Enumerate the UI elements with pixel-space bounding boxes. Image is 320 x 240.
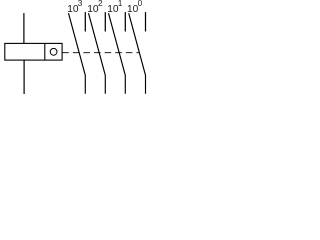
terminal (top) switch 10^1	[124, 12, 126, 31]
divider of drive box	[44, 43, 46, 60]
svg-text:0: 0	[138, 0, 143, 8]
terminal (top) switch 10^0	[145, 12, 147, 31]
svg-text:2: 2	[98, 0, 103, 8]
contact blade switch 10^3	[69, 13, 86, 94]
wire (bottom lead from drive box)	[23, 60, 25, 94]
terminal (top) switch 10^3	[84, 12, 86, 31]
contact blade switch 10^0	[129, 13, 146, 94]
wire (top lead into drive box)	[23, 13, 25, 44]
mechanical link (dashed)	[62, 52, 139, 54]
drive unit box (actuator)	[5, 43, 62, 60]
svg-text:1: 1	[118, 0, 123, 8]
indicator circle inside box	[50, 48, 57, 55]
terminal (top) switch 10^2	[104, 12, 106, 31]
contact blade switch 10^2	[89, 13, 106, 94]
svg-text:3: 3	[78, 0, 83, 8]
contact blade switch 10^1	[109, 13, 126, 94]
